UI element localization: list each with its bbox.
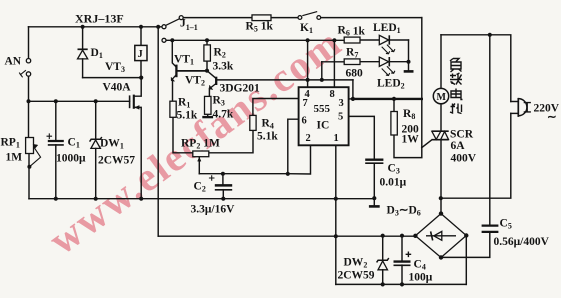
wire RP2 right to R4 (209, 130, 253, 152)
wire C2 top stub (222, 174, 224, 185)
wire DW2 top stub (382, 236, 384, 260)
svg-text:V40A: V40A (103, 82, 132, 94)
transistor VT1 (175, 65, 177, 78)
wire R2 top lead (206, 40, 208, 45)
resistor R5 (252, 15, 271, 21)
wire VT3 drain riser (135, 78, 142, 97)
svg-text:LED1: LED1 (373, 22, 401, 35)
svg-text:0.56μ/400V: 0.56μ/400V (494, 236, 550, 248)
wire neutral branch y198 (441, 113, 511, 198)
svg-text:J: J (138, 49, 143, 60)
svg-text:LED2: LED2 (377, 78, 405, 91)
capacitor C4 electrolytic (394, 260, 411, 262)
svg-text:R5 1k: R5 1k (246, 21, 274, 34)
svg-text:8: 8 (330, 89, 335, 100)
wire D1 to VT3 drain node (83, 77, 142, 79)
wire long left rail down (157, 27, 159, 236)
wire K1 to right edge (321, 17, 422, 19)
wire dc- bottom rail (336, 283, 467, 285)
svg-text:3.3k: 3.3k (213, 61, 234, 73)
wire left drop to AN switch (28, 27, 30, 59)
svg-text:1M: 1M (6, 152, 23, 164)
wire D1 top lead (82, 27, 84, 49)
wire R8 top stub (393, 99, 395, 112)
contact J1-1 (162, 25, 166, 29)
wire motor top lead (440, 35, 442, 89)
wire C1 lower lead (55, 145, 57, 199)
wire R3 ground stub (207, 114, 209, 117)
junction dots (81, 25, 85, 29)
svg-text:5.1k: 5.1k (257, 131, 278, 143)
555 IC box (299, 87, 349, 145)
wire pin8 riser (333, 40, 335, 87)
wire C1 upper lead (55, 101, 57, 140)
svg-text:555: 555 (314, 103, 331, 115)
wire SCR cathode to bridge top (440, 140, 442, 214)
svg-text:680: 680 (346, 68, 364, 80)
diode D1 (78, 48, 88, 50)
LED1 (379, 35, 388, 44)
resistor R1 (170, 101, 176, 117)
capacitor C1 electrolytic (48, 140, 64, 142)
wire C3 ground stub (373, 198, 375, 206)
wire top-left horizontal rail (29, 26, 163, 28)
svg-text:D3∼D6: D3∼D6 (387, 205, 421, 218)
bridge inner diode (426, 235, 456, 237)
wire SCR gate diagonal (422, 140, 432, 148)
svg-text:XRJ–13F: XRJ–13F (75, 12, 124, 26)
svg-text:3.3μ/16V: 3.3μ/16V (191, 204, 236, 216)
wire C4 top stub (401, 236, 403, 261)
wire relay J bottom lead (140, 61, 142, 78)
svg-text:3DG201: 3DG201 (220, 83, 261, 95)
svg-text:0.01μ: 0.01μ (380, 177, 407, 189)
resistor R8 (391, 112, 397, 136)
wire C4 bottom stub (401, 265, 403, 284)
wire top switched rail y17 (183, 17, 298, 19)
wire relay J top lead (140, 27, 142, 46)
wire C2 bottom stub (222, 190, 224, 199)
svg-text:6: 6 (302, 116, 307, 127)
transistor VT2 (215, 77, 217, 85)
svg-text:3: 3 (339, 98, 344, 109)
svg-text:2CW57: 2CW57 (98, 155, 135, 167)
wire VT3 source down to ground rail (135, 107, 142, 198)
pushbutton AN contacts (26, 59, 30, 63)
potentiometer RP1 (26, 138, 34, 154)
wire VT1 base lead (172, 40, 176, 66)
svg-text:AN: AN (5, 56, 22, 68)
wire R1 bottom to RP2 (173, 117, 193, 153)
wire DW1 upper lead (95, 101, 97, 139)
resistor R2 (204, 45, 211, 61)
svg-text:M: M (437, 92, 447, 103)
svg-text:2: 2 (306, 133, 311, 144)
wire pin6 riser (288, 119, 299, 174)
capacitor C3 (365, 159, 383, 161)
wire VT2 collector long line to 555 (217, 79, 353, 81)
wire pin3 stub (349, 98, 353, 100)
wire R4 top to pin7 (253, 99, 299, 116)
wire DW2 bottom stub (382, 270, 384, 285)
wire R2 bottom lead (206, 61, 208, 71)
wire plug upper pin (511, 101, 519, 103)
wire LED common drop (408, 40, 410, 71)
wire plug lower pin (511, 112, 519, 114)
wire pin3 to collector line riser (352, 80, 354, 99)
resistor R6 (344, 37, 360, 43)
wire RP1 bottom to ground rail (28, 154, 30, 199)
ground bar under R3 (202, 116, 213, 118)
wire DW1 lower lead (95, 149, 97, 199)
resistor R3 (205, 96, 212, 114)
svg-text:2CW59: 2CW59 (338, 270, 375, 282)
wire gate line AN node to VT3 (29, 100, 130, 102)
svg-text:5.1k: 5.1k (177, 110, 198, 122)
wire C5 bottom to bridge bottom (441, 232, 490, 257)
wire bridge right corner drop (465, 236, 467, 285)
svg-text:400V: 400V (451, 153, 477, 165)
watermark www.elecfans.com (40, 18, 350, 263)
svg-text:7: 7 (303, 98, 308, 109)
wire R7 right to LED2 (360, 61, 379, 63)
svg-text:∼: ∼ (547, 112, 557, 124)
wire motor bottom to SCR (440, 104, 442, 131)
wire D1 bottom lead (82, 59, 84, 78)
wire pin5 to C3 (349, 116, 375, 158)
motor M circle (433, 88, 448, 103)
bridge rectifier D3-D6 diamond (415, 214, 466, 258)
svg-text:4.7k: 4.7k (213, 109, 234, 121)
mosfet VT3 V40A (129, 95, 131, 108)
svg-text:1: 1 (334, 133, 339, 144)
svg-text:1000μ: 1000μ (56, 153, 86, 165)
ground bar under C3 (369, 205, 380, 208)
wire bottom dc+ rail to bridge (158, 235, 415, 237)
LED2 (379, 57, 388, 66)
svg-text:6A: 6A (451, 140, 466, 152)
wire R6 right to LED1 (360, 39, 379, 41)
zener DW1 (90, 137, 102, 142)
switch K1 (298, 16, 302, 20)
zener DW2 (377, 258, 389, 262)
wire R7 jog vertical (321, 62, 323, 80)
relay coil J (135, 45, 147, 60)
svg-text:IC: IC (317, 120, 330, 132)
wire VT1 collector to R2 node (177, 70, 207, 72)
svg-text:RP2 1M: RP2 1M (181, 138, 220, 151)
mains plug 220V (517, 98, 519, 117)
wire R7 left segment (322, 61, 345, 63)
wire AN switch to lower node (28, 76, 30, 137)
capacitor C5 (482, 225, 499, 227)
wire VT2 emitter down to R3 (208, 89, 210, 97)
resistor R4 (250, 115, 256, 130)
resistor R7 (344, 59, 360, 65)
svg-text:SCR: SCR (450, 129, 474, 141)
wire LED1 cathode (389, 39, 408, 41)
wire supply rail y40 (166, 39, 344, 41)
wire R8 bottom elbow to gate (394, 135, 422, 158)
wire VT1 emitter down to R1 (172, 82, 174, 102)
wire pin1 down through ground to dc- (335, 145, 337, 284)
wire right edge of LED box (421, 18, 423, 148)
wire mains top (441, 35, 511, 102)
svg-text:R6 1k: R6 1k (338, 25, 366, 38)
chinese label load-motor (drawn strokes) (450, 59, 463, 114)
wire C3 bottom stub (373, 163, 375, 198)
svg-text:1W: 1W (402, 134, 420, 146)
ground bar under LEDs (404, 70, 414, 73)
wire wiper rail to pin2 (199, 145, 310, 174)
wire LED2 cathode (389, 61, 408, 63)
wire pin4 riser (307, 40, 309, 87)
svg-text:5: 5 (338, 112, 343, 123)
capacitor C2 electrolytic (215, 184, 232, 187)
potentiometer RP2 (193, 151, 209, 157)
wire RP2 wiper down (198, 158, 200, 174)
wire ground rail (29, 198, 374, 200)
svg-text:100μ: 100μ (409, 272, 433, 284)
SCR triac symbol (432, 130, 449, 132)
wire VT2 base lead (208, 71, 216, 78)
wire C5 riser (489, 35, 491, 225)
wire pin3 thick line to gate edge (353, 98, 422, 100)
